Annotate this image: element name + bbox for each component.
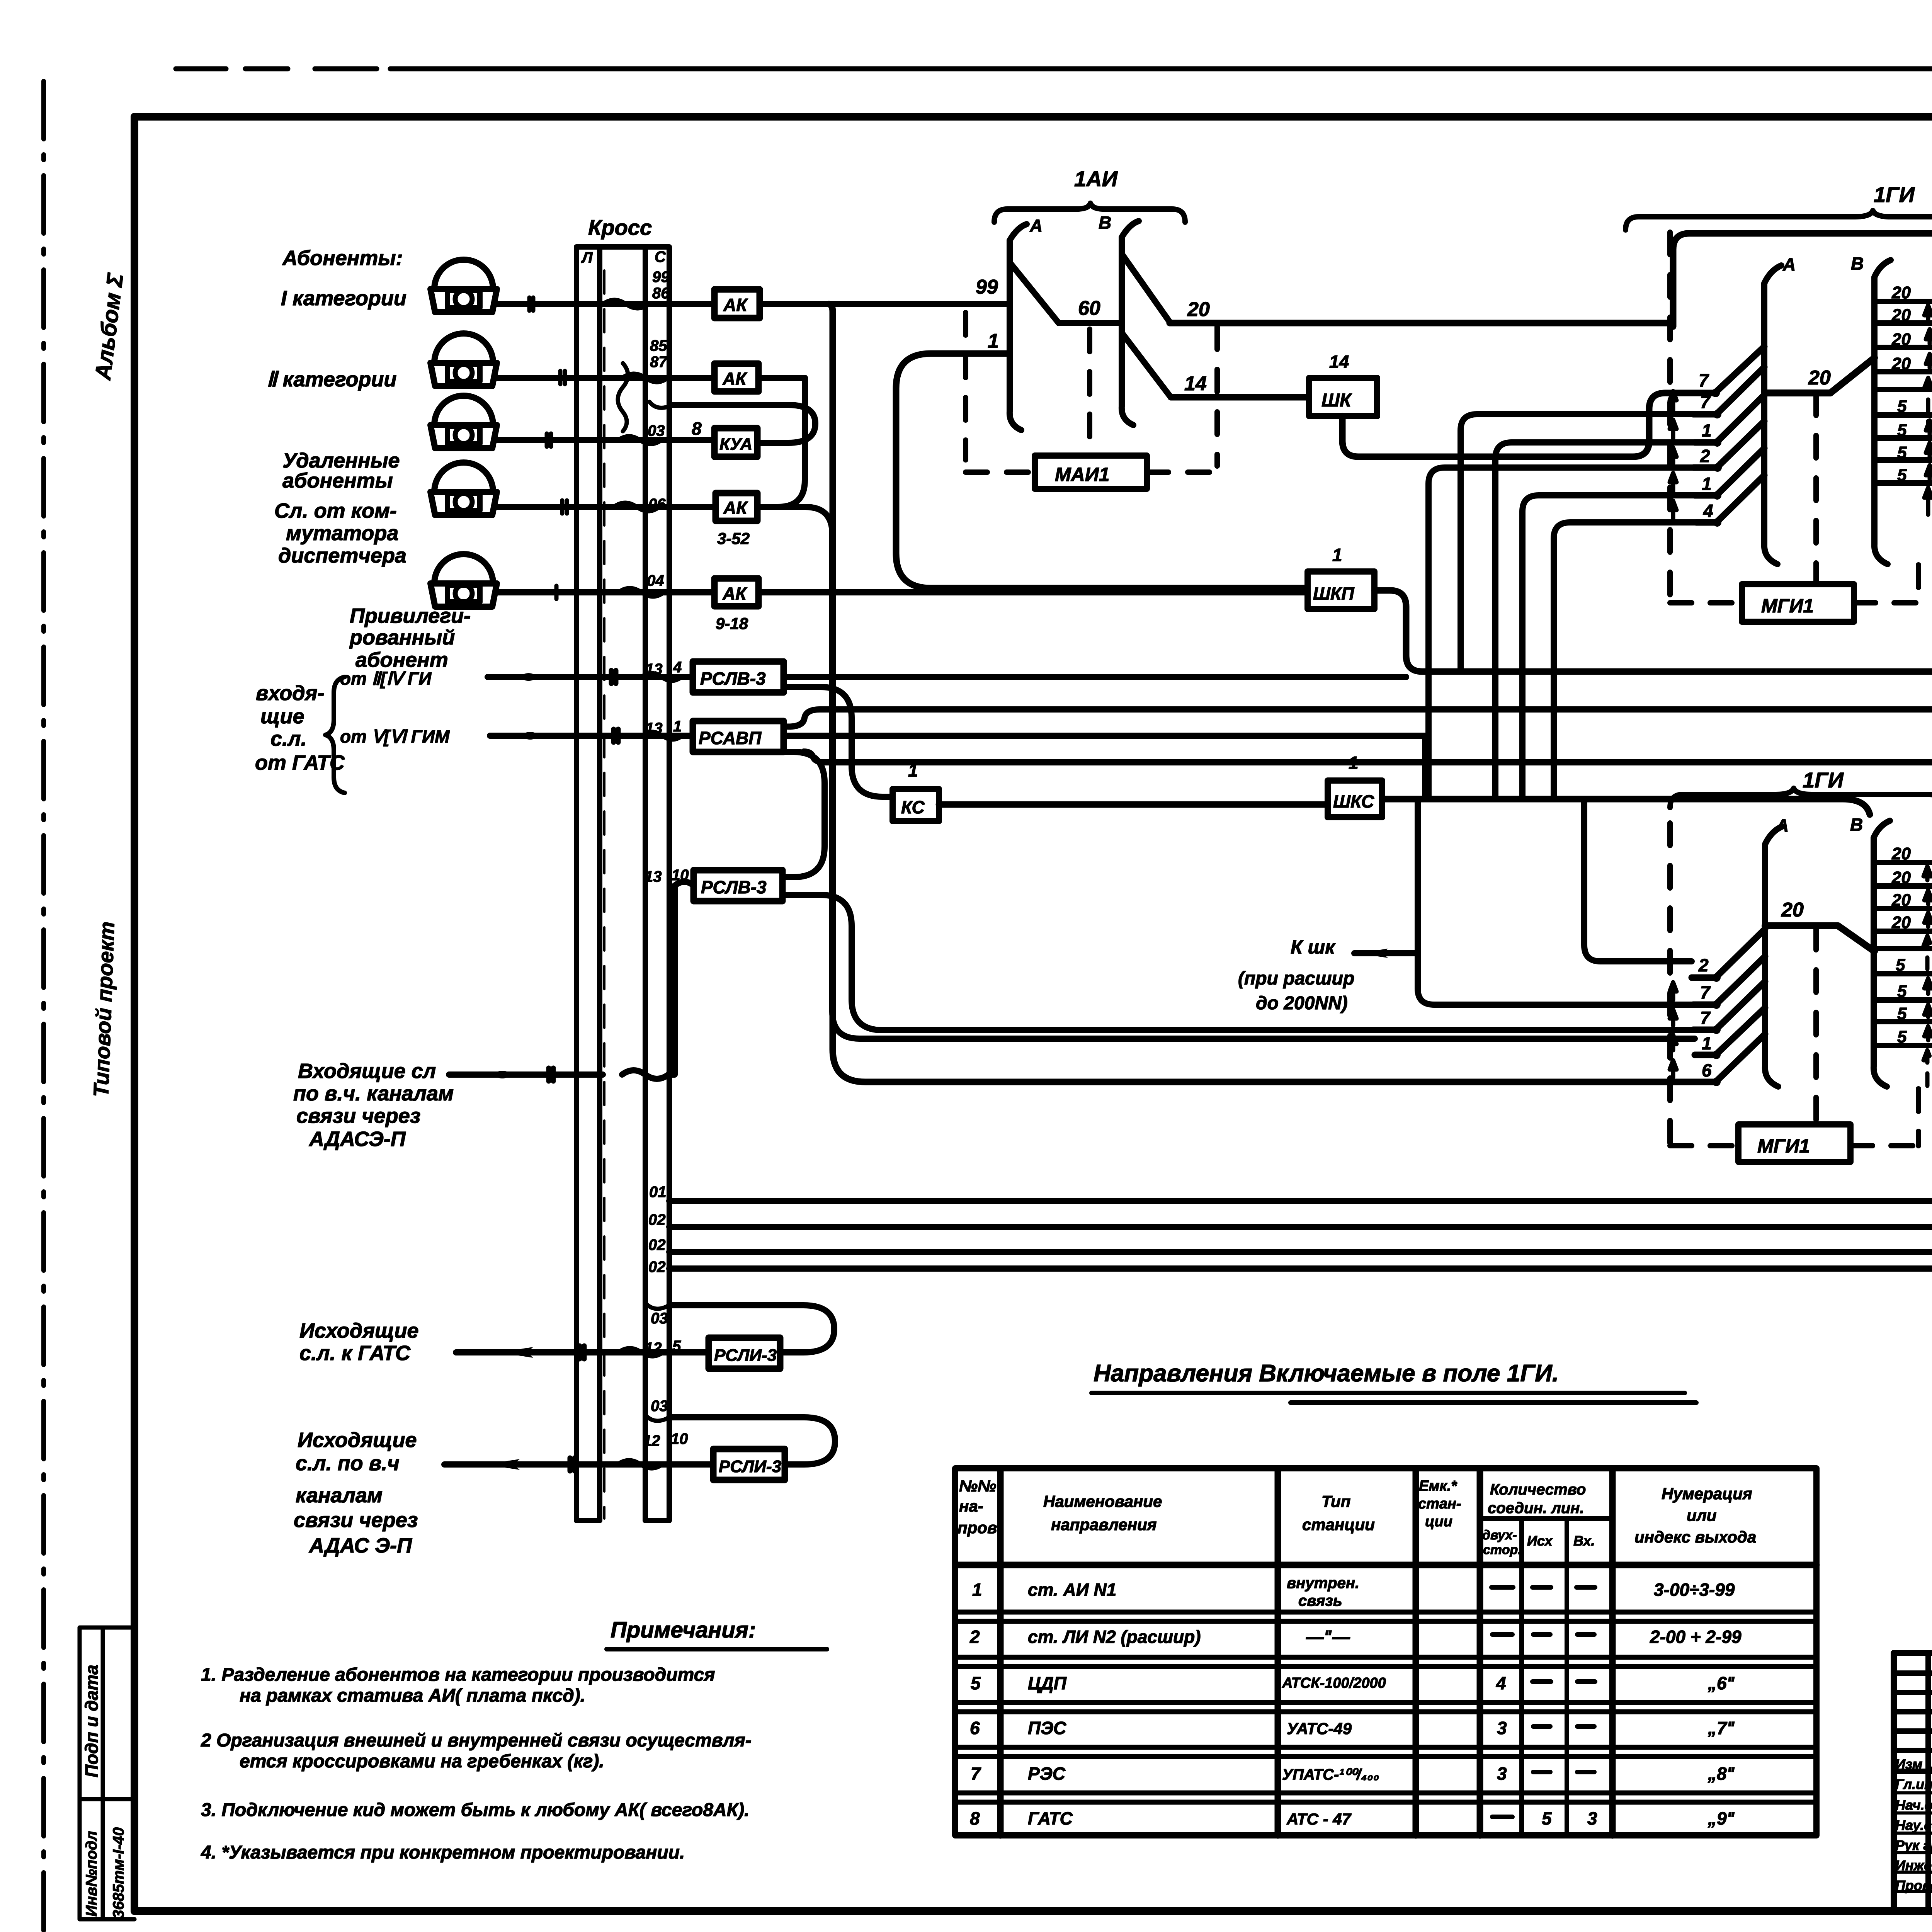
svg-text:3685тм-I-40: 3685тм-I-40 <box>110 1827 127 1918</box>
svg-text:4: 4 <box>1496 1673 1506 1693</box>
wire phone2 to АК2 <box>497 375 805 381</box>
switch field А ГИ2 <box>1765 827 1782 1087</box>
svg-text:5: 5 <box>1897 1004 1907 1023</box>
svg-text:10: 10 <box>671 1430 688 1447</box>
svg-text:1: 1 <box>972 1580 982 1600</box>
svg-text:от Ⅱ[Ⅳ ГИ: от Ⅱ[Ⅳ ГИ <box>340 668 432 689</box>
svg-text:с.л. к ГАТС: с.л. к ГАТС <box>299 1342 411 1365</box>
svg-text:5: 5 <box>1897 1027 1907 1046</box>
svg-text:РЭС: РЭС <box>1028 1764 1066 1784</box>
svg-text:86: 86 <box>652 285 670 302</box>
svg-text:АК: АК <box>723 295 748 315</box>
revision table left <box>1928 1653 1932 1911</box>
svg-text:РСЛИ-3: РСЛИ-3 <box>719 1457 781 1476</box>
svg-text:щие: щие <box>260 705 304 728</box>
svg-text:№№: №№ <box>959 1477 996 1495</box>
svg-text:3: 3 <box>1497 1764 1507 1784</box>
svg-text:2: 2 <box>1700 446 1710 466</box>
МАИ1 box <box>1035 456 1147 489</box>
svg-text:20: 20 <box>1891 306 1911 325</box>
svg-text:Инв№подл: Инв№подл <box>83 1831 100 1917</box>
svg-text:МАИ1: МАИ1 <box>1055 464 1110 485</box>
svg-text:14: 14 <box>1184 372 1207 395</box>
ШК box <box>1309 378 1377 416</box>
МГИ1 lower box + dashed <box>1667 823 1673 1146</box>
svg-text:ст. ЛИ N2 (расшир): ст. ЛИ N2 (расшир) <box>1028 1627 1201 1647</box>
svg-text:9-18: 9-18 <box>716 614 748 633</box>
svg-text:2: 2 <box>969 1627 980 1647</box>
svg-text:от ГАТС: от ГАТС <box>255 751 345 774</box>
svg-text:4. *Указывается при конк: 4. *Указывается при конкретном проектиро… <box>201 1842 685 1863</box>
svg-text:направления: направления <box>1051 1515 1156 1534</box>
svg-text:87: 87 <box>650 354 668 371</box>
svg-text:абонент: абонент <box>355 648 448 672</box>
svg-text:АДАСЭ-П: АДАСЭ-П <box>308 1128 406 1151</box>
svg-text:5: 5 <box>971 1673 981 1693</box>
small arrows in rows ГИ1 <box>1924 305 1932 515</box>
КУА box <box>714 428 757 457</box>
svg-text:АК: АК <box>722 369 747 389</box>
svg-text:индекс выхода: индекс выхода <box>1634 1528 1756 1546</box>
svg-text:„8ʺ: „8ʺ <box>1708 1764 1735 1784</box>
svg-text:03: 03 <box>651 1398 668 1415</box>
Н rows of ГИ1 <box>1874 301 1932 501</box>
svg-text:20: 20 <box>1891 330 1911 349</box>
switch field А of ГИ1 <box>1764 265 1781 564</box>
svg-text:2 Организация внешней и вн: 2 Организация внешней и внутренней связи… <box>201 1730 752 1751</box>
svg-text:2: 2 <box>1698 955 1709 975</box>
wire РСАВП loop to РСЛВ-3 №2 <box>782 752 825 877</box>
svg-text:20: 20 <box>1781 899 1804 921</box>
svg-text:1: 1 <box>988 330 999 352</box>
svg-text:внутрен.: внутрен. <box>1287 1575 1359 1592</box>
svg-text:РСЛВ-3: РСЛВ-3 <box>701 877 767 897</box>
svg-text:3: 3 <box>1587 1808 1597 1828</box>
РСЛВ-3 #1 outputs <box>784 674 1406 680</box>
svg-text:пров: пров <box>957 1519 997 1537</box>
wavy squiggle above КУА line inside cross <box>618 363 628 431</box>
svg-text:с.л.: с.л. <box>270 727 307 750</box>
svg-text:АК: АК <box>723 498 748 518</box>
svg-text:(при расшир: (при расшир <box>1238 968 1354 989</box>
svg-text:7: 7 <box>1699 370 1709 390</box>
svg-text:ст. АИ N1: ст. АИ N1 <box>1028 1580 1116 1600</box>
svg-text:А: А <box>1029 216 1043 236</box>
svg-text:ГАТС: ГАТС <box>1028 1808 1073 1828</box>
svg-text:стор.: стор. <box>1483 1543 1522 1557</box>
wire РСЛВ-3 №2 to ГИ2 input 7b <box>782 895 1693 1030</box>
svg-text:КУА: КУА <box>719 435 752 454</box>
svg-text:20: 20 <box>1891 868 1911 887</box>
wire 20-line АИ to ГИ1 <box>1170 233 1932 327</box>
wire bus L3 to 1РИ <box>804 752 1932 762</box>
svg-text:Примечания:: Примечания: <box>611 1617 756 1643</box>
60 connection between А and В <box>1059 320 1122 326</box>
wire branch to ГИ1 А input 2 <box>1461 414 1693 672</box>
svg-text:ется кроссировками на греб: ется кроссировками на гребенках (кг). <box>240 1751 604 1772</box>
svg-text:1ГИ: 1ГИ <box>1803 768 1844 792</box>
АК box 2 <box>714 364 759 391</box>
svg-text:1: 1 <box>1702 1033 1712 1053</box>
svg-text:Направления Включаемые в по: Направления Включаемые в поле 1ГИ. <box>1094 1360 1559 1387</box>
svg-text:станции: станции <box>1302 1515 1375 1534</box>
svg-text:I категории: I категории <box>281 287 406 310</box>
wire К шк stub and riser <box>1354 799 1418 988</box>
svg-text:В: В <box>1099 213 1111 233</box>
svg-text:Входящие сл: Входящие сл <box>298 1060 436 1083</box>
wire to ГИ2 input 7a <box>1418 988 1693 1005</box>
svg-text:Нау.секр: Нау.секр <box>1895 1817 1932 1833</box>
svg-text:„7ʺ: „7ʺ <box>1708 1718 1735 1738</box>
ГИ1 А numbered inputs with diagonals <box>1692 347 1764 522</box>
АК box 1 <box>714 289 760 318</box>
svg-text:Изм: Изм <box>1895 1756 1922 1772</box>
svg-text:С: С <box>655 248 666 265</box>
small vertical arrows left of ГИ1 А inputs <box>1670 391 1677 519</box>
от II/IV ГИ wire <box>488 674 693 680</box>
svg-text:Нач.отд: Нач.отд <box>1895 1797 1932 1813</box>
svg-text:А: А <box>1776 815 1789 835</box>
svg-text:от Ⅴ[Ⅵ ГИМ: от Ⅴ[Ⅵ ГИМ <box>340 726 450 747</box>
ГИ2 А numbered inputs <box>1692 929 1765 1082</box>
svg-text:ПЭС: ПЭС <box>1028 1718 1066 1738</box>
svg-text:8: 8 <box>970 1808 980 1828</box>
МАИ1 dashed verticals <box>963 313 968 460</box>
svg-text:АТСК-100/2000: АТСК-100/2000 <box>1282 1675 1386 1691</box>
svg-text:3. Подключение кид может: 3. Подключение кид может быть к любому А… <box>201 1800 750 1820</box>
svg-text:02: 02 <box>648 1211 666 1228</box>
svg-text:99: 99 <box>976 276 998 298</box>
switch field В ГИ2 <box>1874 821 1890 1087</box>
svg-text:В: В <box>1851 253 1864 274</box>
wire phone5 (привилегированный) <box>497 589 1308 595</box>
svg-text:01: 01 <box>649 1184 667 1201</box>
wire phone3 (удаленные) <box>497 437 714 443</box>
wavy in cross <box>603 300 649 308</box>
РСЛИ-3 box 1 <box>709 1338 780 1369</box>
svg-text:АТС - 47: АТС - 47 <box>1286 1810 1352 1828</box>
Н rows ГИ2 <box>1874 862 1932 1061</box>
wire ШКС to ГИ2 В <box>1382 799 1870 815</box>
svg-text:рованный: рованный <box>349 626 455 649</box>
wire bus L1 ШКП to 1РИ <box>1374 590 1932 672</box>
svg-text:20: 20 <box>1891 354 1911 373</box>
cross frame columns <box>577 247 669 1520</box>
outer border left (dash-dot) <box>41 81 46 1932</box>
svg-text:до 200NN): до 200NN) <box>1256 993 1348 1014</box>
wire drop to ГИ2 А input 2 <box>1584 799 1692 961</box>
РСЛВ-3 box 2 <box>694 870 782 901</box>
svg-text:Альбом Σ: Альбом Σ <box>90 271 128 382</box>
svg-text:Нумерация: Нумерация <box>1662 1485 1752 1503</box>
svg-text:04: 04 <box>647 572 664 589</box>
ШКС box <box>1328 781 1382 817</box>
svg-text:20: 20 <box>1891 283 1911 302</box>
svg-text:РСЛВ-3: РСЛВ-3 <box>700 668 766 689</box>
svg-text:мутатора: мутатора <box>286 522 398 545</box>
svg-text:двух-: двух- <box>1482 1528 1517 1543</box>
svg-text:АК: АК <box>722 583 747 604</box>
wire phone4 (сл от коммутатора) <box>497 504 716 510</box>
svg-text:60: 60 <box>1078 297 1100 320</box>
svg-text:Удаленные: Удаленные <box>282 449 400 472</box>
svg-text:„9ʺ: „9ʺ <box>1708 1808 1735 1828</box>
switch field A of АИ <box>1010 224 1027 430</box>
svg-text:20: 20 <box>1891 891 1911 910</box>
svg-text:Кросс: Кросс <box>588 215 652 240</box>
svg-text:связи через: связи через <box>294 1509 418 1532</box>
svg-text:Наименование: Наименование <box>1043 1492 1162 1510</box>
svg-text:3-52: 3-52 <box>717 529 750 548</box>
svg-text:1: 1 <box>1702 474 1712 494</box>
svg-text:КС: КС <box>901 797 925 817</box>
входящие по вч каналам wire <box>449 882 694 1079</box>
svg-text:Исходящие: Исходящие <box>299 1319 419 1342</box>
brace 1АИ <box>994 203 1185 222</box>
svg-text:Емк.*: Емк.* <box>1419 1478 1458 1494</box>
svg-text:02: 02 <box>648 1259 666 1276</box>
svg-text:Рук гр.: Рук гр. <box>1895 1837 1932 1853</box>
svg-text:Количество: Количество <box>1490 1481 1586 1498</box>
svg-text:8: 8 <box>692 418 702 439</box>
svg-text:РСЛИ-3: РСЛИ-3 <box>714 1346 777 1365</box>
ШКП box <box>1308 571 1374 609</box>
svg-text:1: 1 <box>673 718 682 735</box>
row labels ГИ1 <box>1891 283 1932 485</box>
РСАВП box <box>693 721 784 752</box>
svg-text:Сл. от ком-: Сл. от ком- <box>274 499 397 522</box>
dashes in table <box>1492 1587 1595 1817</box>
svg-text:диспетчера: диспетчера <box>278 544 406 567</box>
svg-text:ЦДП: ЦДП <box>1028 1673 1067 1693</box>
svg-text:ШК: ШК <box>1321 390 1352 411</box>
svg-text:5: 5 <box>1542 1808 1552 1828</box>
wire ГИ1 Н-8 loop to cross <box>669 483 1932 1269</box>
svg-text:1: 1 <box>1702 420 1712 440</box>
svg-text:входя-: входя- <box>256 682 324 705</box>
РСЛВ-3 box 1 <box>693 662 784 692</box>
brace for входящие с.л. <box>325 677 345 793</box>
svg-text:Исходящие: Исходящие <box>298 1429 417 1452</box>
svg-text:7: 7 <box>971 1764 981 1784</box>
wire ГИ1 Н-5 loop to cross <box>669 415 1932 1201</box>
исходящие к ГАТС wire with left arrow <box>456 1349 709 1355</box>
wire ГИ1 Н-6 loop to cross <box>669 438 1932 1227</box>
svg-text:Абоненты:: Абоненты: <box>282 247 403 270</box>
svg-text:20: 20 <box>1808 367 1831 389</box>
svg-text:—ʺ—: —ʺ— <box>1306 1627 1350 1647</box>
svg-text:или: или <box>1687 1506 1716 1524</box>
svg-text:Ⅱ категории: Ⅱ категории <box>267 368 396 391</box>
svg-text:20: 20 <box>1187 298 1210 321</box>
wire bus L2 РСАВП to Регистр <box>784 709 1932 727</box>
svg-text:4: 4 <box>673 659 682 676</box>
svg-text:6: 6 <box>970 1718 980 1738</box>
svg-text:85: 85 <box>650 337 667 354</box>
КС box <box>893 789 939 821</box>
switch field В of ГИ1 <box>1874 260 1891 564</box>
wire АК2 chain to АК3 <box>757 378 805 507</box>
loop from РСЛИ-3 #2 up and back to cross <box>669 1417 835 1464</box>
wire 1-line АИ to ШКП <box>896 354 1308 588</box>
wire АК3 output to ГИ2 input 1 <box>757 507 1695 1039</box>
svg-text:В: В <box>1850 815 1863 835</box>
svg-text:Тип: Тип <box>1321 1492 1350 1510</box>
РСЛИ-3 box 2 <box>713 1449 785 1480</box>
svg-text:1. Разделение абонентов на: 1. Разделение абонентов на категории про… <box>201 1665 715 1685</box>
svg-text:03: 03 <box>648 422 665 439</box>
svg-text:на-: на- <box>959 1497 983 1515</box>
svg-text:абоненты: абоненты <box>282 469 393 492</box>
svg-text:Гл.инжпр: Гл.инжпр <box>1895 1776 1932 1792</box>
svg-text:20: 20 <box>1891 913 1911 932</box>
АК box 4 (9-18) <box>714 578 759 606</box>
svg-text:Подп и дата: Подп и дата <box>82 1665 102 1777</box>
svg-text:3: 3 <box>1497 1718 1507 1738</box>
svg-text:на рамках статива АИ( плата п: на рамках статива АИ( плата пксд). <box>240 1685 585 1706</box>
исходящие по вч wire <box>444 1461 713 1468</box>
wire РСЛВ-3 №1 to КС <box>784 687 893 797</box>
от V/VI ГИМ wire <box>490 733 693 739</box>
svg-text:МГИ1: МГИ1 <box>1757 1135 1810 1157</box>
svg-text:А: А <box>1782 254 1796 274</box>
wire riser to ГИ1 А input 5 <box>1522 495 1695 799</box>
phone dispatcher switchboard <box>430 463 497 515</box>
svg-text:5: 5 <box>1897 982 1907 1001</box>
svg-text:ции: ции <box>1425 1514 1452 1530</box>
svg-text:АДАС Э-П: АДАС Э-П <box>308 1534 412 1557</box>
svg-text:Типовой проект: Типовой проект <box>89 921 119 1098</box>
svg-text:2-00 + 2-99: 2-00 + 2-99 <box>1650 1627 1742 1647</box>
АК box 3 (3-52) <box>716 493 757 521</box>
svg-text:99: 99 <box>652 269 670 286</box>
svg-text:связи через: связи через <box>296 1104 420 1128</box>
svg-text:1ГИ: 1ГИ <box>1874 182 1915 207</box>
wire 14-line АИ to ШК <box>1171 394 1309 401</box>
wire phone1 to АК <box>497 301 1010 307</box>
svg-text:„6ʺ: „6ʺ <box>1708 1673 1735 1693</box>
loop from РСЛИ-3 #1 up and back to cross <box>669 1305 834 1352</box>
svg-text:связь: связь <box>1298 1592 1342 1609</box>
svg-text:соедин. лин.: соедин. лин. <box>1488 1500 1584 1517</box>
svg-text:Проверил: Проверил <box>1895 1878 1932 1893</box>
svg-text:4: 4 <box>1703 501 1713 521</box>
svg-text:каналам: каналам <box>296 1484 383 1507</box>
svg-text:1АИ: 1АИ <box>1074 167 1118 191</box>
svg-text:Вх.: Вх. <box>1573 1533 1595 1549</box>
svg-text:7: 7 <box>1700 1008 1711 1028</box>
svg-text:6: 6 <box>1702 1060 1712 1080</box>
КУА loop back to cross <box>673 405 815 443</box>
svg-text:02: 02 <box>648 1236 666 1253</box>
wire АК1 branch to ГИ2 input 6 <box>829 304 1695 1082</box>
phone subscriber cat II <box>430 333 497 386</box>
wire riser to ГИ1 А input 4 <box>1429 468 1694 799</box>
svg-text:Исх: Исх <box>1527 1533 1553 1549</box>
svg-text:20: 20 <box>1891 844 1911 863</box>
svg-text:по в.ч. каналам: по в.ч. каналам <box>293 1082 454 1105</box>
svg-text:7: 7 <box>1700 392 1711 412</box>
svg-text:МГИ1: МГИ1 <box>1761 595 1814 617</box>
svg-text:Инженер: Инженер <box>1895 1857 1932 1873</box>
switch field B of АИ <box>1122 221 1139 425</box>
svg-text:12: 12 <box>643 1432 660 1449</box>
outer border top <box>176 66 1932 71</box>
wire КС to ШКС <box>939 801 1328 808</box>
svg-text:7: 7 <box>1700 982 1711 1002</box>
svg-text:ШКС: ШКС <box>1333 791 1374 811</box>
phone remote subscriber <box>430 396 497 448</box>
svg-text:5: 5 <box>1896 956 1905 975</box>
wire riser to ГИ1 А input 6 <box>1554 522 1696 799</box>
telephone set symbol subscriber cat I <box>430 260 497 312</box>
svg-text:Л: Л <box>581 249 593 266</box>
wire ГИ1 Н-7 loop to cross <box>669 460 1932 1252</box>
wire riser to ГИ1 А input 3 <box>1495 442 1695 799</box>
svg-text:с.л. по в.ч: с.л. по в.ч <box>296 1452 400 1475</box>
svg-text:03: 03 <box>651 1310 668 1327</box>
left margin boxes <box>80 1628 134 1919</box>
svg-text:РСАВП: РСАВП <box>699 728 762 748</box>
svg-text:3-00÷3-99: 3-00÷3-99 <box>1654 1580 1735 1600</box>
svg-text:УАТС-49: УАТС-49 <box>1287 1719 1352 1738</box>
svg-text:1: 1 <box>1332 545 1342 565</box>
svg-text:14: 14 <box>1329 352 1349 372</box>
svg-text:К шк: К шк <box>1291 936 1336 958</box>
wire РСАВП mid output <box>784 736 1425 796</box>
svg-text:13: 13 <box>645 868 662 885</box>
brace 1ГИ upper <box>1626 211 1932 230</box>
phone privileged subscriber <box>430 554 497 607</box>
svg-text:УПАТС-¹⁰⁰/₄₀₀: УПАТС-¹⁰⁰/₄₀₀ <box>1282 1766 1379 1783</box>
wire ШК to ГИ1 А input 1 <box>1342 393 1692 457</box>
МГИ1 upper box + dashed <box>1667 232 1673 603</box>
svg-text:стан-: стан- <box>1418 1496 1461 1512</box>
svg-text:ШКП: ШКП <box>1313 583 1354 604</box>
А diagonal to 20 <box>1764 358 1874 393</box>
